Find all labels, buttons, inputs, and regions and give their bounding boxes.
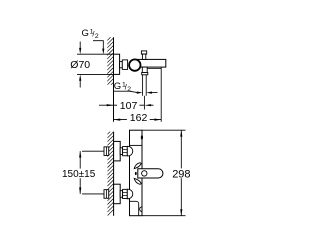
handle dot (135, 172, 137, 175)
lower arc detail (140, 207, 142, 212)
wall hatching (100, 120, 118, 223)
diverter knob (141, 51, 146, 54)
lever handle top view: wings (134, 163, 141, 169)
svg-text:G: G (114, 81, 121, 92)
hose nipple under body (142, 67, 147, 72)
svg-text:298: 298 (172, 168, 190, 180)
svg-text:2: 2 (95, 33, 99, 40)
lever handle stadium (138, 169, 163, 178)
union 1 (104, 141, 133, 161)
nipple extension lines (142, 75, 144, 96)
body / lever handle rect (136, 59, 166, 67)
svg-text:G: G (82, 28, 89, 39)
svg-text:2: 2 (127, 86, 131, 93)
body circle (tube end) (129, 59, 140, 70)
dim 070 extension lines (77, 53, 114, 55)
dim 298 (142, 129, 186, 131)
leader G1/2 top (93, 41, 103, 51)
dim 150+-15 (82, 150, 104, 152)
svg-text:107: 107 (120, 100, 138, 112)
leader to nipple with arrows (129, 91, 137, 92)
svg-text:162: 162 (130, 112, 148, 124)
handle circle (142, 171, 147, 176)
svg-text:150±15: 150±15 (62, 169, 96, 180)
union 2 (104, 184, 133, 204)
body internal cap lines (130, 144, 143, 146)
dim 162 (160, 68, 162, 121)
body rect (130, 130, 143, 216)
svg-text:Ø70: Ø70 (70, 59, 90, 71)
escutcheon (rosette) side view (114, 54, 120, 74)
wall surface line (113, 37, 115, 122)
step under handle (147, 67, 161, 68)
dim 070 arrows (79, 42, 81, 50)
dim 107 (99, 104, 114, 106)
knob bump on edge (141, 135, 143, 139)
neck (120, 62, 123, 68)
union nut (122, 60, 127, 70)
wall hatching (100, 26, 118, 96)
wall surface line bottom (113, 132, 115, 216)
